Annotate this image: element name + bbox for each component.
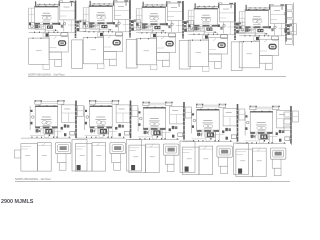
unit 3 row 1 <box>136 1 193 67</box>
row 2 end closet 1 <box>284 112 291 117</box>
unit 2 row 1 right wing <box>98 39 138 68</box>
rule row 1 <box>28 76 286 78</box>
svg-text:NORTH BUILDING - 1st Floor: NORTH BUILDING - 1st Floor <box>15 177 51 181</box>
row 1 end fixture 2 <box>285 12 287 15</box>
row 2 end closet 3 <box>284 126 291 131</box>
unit 3 row 1 right wing <box>151 40 191 69</box>
row 2 end closet 2 <box>284 119 291 124</box>
rule row 2 <box>15 181 290 183</box>
row 1 end closet 3 <box>286 19 293 25</box>
unit 5 row 2 <box>236 106 299 177</box>
unit 4 row 2 <box>182 104 245 175</box>
row 1 end closet 4 <box>286 26 293 32</box>
unit 2 row 1 <box>83 0 140 66</box>
unit 4 row 1 <box>188 3 245 69</box>
unit 1 row 2 right wing <box>72 140 87 172</box>
unit 1 row 1 <box>29 1 86 67</box>
svg-text:NORTH BUILDING - 2nd Floor: NORTH BUILDING - 2nd Floor <box>28 72 65 76</box>
unit 3 row 2 <box>129 102 192 173</box>
row 1 end closet 5 <box>286 34 293 39</box>
row 1 end closet 2 <box>286 12 293 18</box>
row 1 end fixture <box>284 29 287 33</box>
svg-text:2900 MJMLS: 2900 MJMLS <box>1 199 34 205</box>
unit 4 row 1 right wing <box>203 42 243 71</box>
unit 5 row 1 <box>239 4 296 70</box>
unit 2 row 2 right wing <box>127 140 142 172</box>
unit 3 row 2 right wing <box>180 141 195 173</box>
unit 4 row 2 right wing <box>234 143 249 175</box>
row 1 end closet 1 <box>286 5 293 11</box>
unit 1 row 2 <box>21 100 84 171</box>
unit 2 row 2 <box>75 100 137 171</box>
row 1 end closet 6 <box>286 40 293 45</box>
row 1 end wall <box>293 3 295 47</box>
unit 1 row 1 right wing <box>43 40 83 69</box>
row 2 porch left <box>15 150 21 158</box>
row 2 end wall <box>291 111 293 145</box>
